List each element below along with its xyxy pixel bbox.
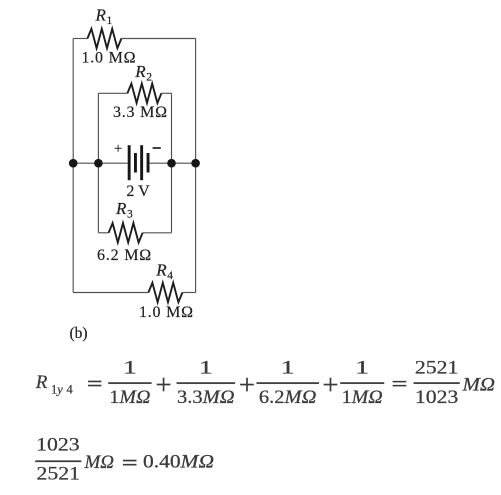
resistor R1	[87, 29, 121, 48]
svg-text:1: 1	[355, 358, 369, 379]
svg-text:3: 3	[127, 209, 133, 221]
svg-text:1.0 MΩ: 1.0 MΩ	[139, 304, 194, 321]
svg-text:R: R	[134, 62, 146, 81]
equation 1: plus sign 1	[157, 384, 170, 385]
equation 1: equals sign 1	[88, 381, 101, 382]
junction node dot 2	[94, 159, 103, 168]
equation 1: plus sign 3	[324, 384, 337, 385]
wire R3 bottom-left segment	[98, 232, 108, 234]
equation 1: fraction 4 bar	[340, 382, 384, 384]
resistor R2	[127, 84, 161, 103]
junction node dot 3	[167, 159, 176, 168]
wire inner-right vertical	[171, 93, 173, 233]
wire top-right segment	[121, 38, 195, 40]
battery V1 short plate 2	[147, 153, 150, 173]
junction node dot 4	[191, 159, 200, 168]
wire inner-left vertical	[97, 93, 99, 233]
junction node dot 1	[69, 159, 78, 168]
battery V1 long plate 1	[128, 145, 131, 180]
equation 1: plus sign 2	[240, 384, 253, 385]
svg-text:4: 4	[167, 270, 173, 282]
svg-text:R: R	[155, 261, 167, 280]
equation 1: equals sign 2	[393, 381, 407, 382]
equation 1: fraction 1 bar	[108, 382, 151, 384]
svg-text:R: R	[35, 372, 48, 393]
svg-text:R: R	[115, 199, 127, 218]
svg-text:+: +	[114, 141, 122, 157]
wire top-left segment	[73, 38, 87, 40]
svg-text:1: 1	[107, 15, 113, 27]
svg-text:1: 1	[123, 358, 137, 379]
equation 1: fraction 5 bar	[414, 382, 460, 384]
wire R3 bottom-right segment	[143, 232, 172, 234]
svg-text:1MΩ: 1MΩ	[342, 387, 383, 408]
wire R2 top-right segment	[161, 92, 171, 94]
svg-text:R: R	[95, 6, 107, 25]
svg-text:6.2 MΩ: 6.2 MΩ	[97, 247, 152, 264]
svg-text:1.0 MΩ: 1.0 MΩ	[81, 49, 136, 66]
svg-text:1023: 1023	[415, 387, 459, 408]
svg-text:1: 1	[199, 358, 213, 379]
svg-text:6.2MΩ: 6.2MΩ	[259, 387, 317, 408]
svg-text:2: 2	[146, 71, 152, 83]
svg-text:1y4: 1y4	[51, 383, 74, 397]
equation 1: fraction 3 bar	[257, 382, 319, 384]
svg-text:MΩ: MΩ	[84, 452, 115, 473]
svg-text:MΩ: MΩ	[461, 374, 495, 395]
svg-text:2 V: 2 V	[126, 183, 150, 200]
wire R2 top-left segment	[98, 92, 127, 94]
equation 2: fraction bar	[35, 461, 81, 463]
svg-text:2521: 2521	[37, 464, 81, 485]
battery V1 long plate 2	[140, 145, 143, 180]
equation 2: equals sign	[123, 460, 136, 461]
svg-text:1: 1	[281, 358, 295, 379]
wire left outer vertical	[72, 39, 74, 293]
svg-text:(b): (b)	[70, 325, 88, 342]
wire R4 bottom-left segment	[73, 292, 148, 294]
svg-text:1MΩ: 1MΩ	[109, 387, 150, 408]
battery V1 short plate 1	[134, 153, 137, 173]
wire middle-left to battery	[73, 162, 128, 164]
svg-text:1023: 1023	[36, 435, 80, 456]
wire battery to middle-right	[150, 162, 196, 164]
svg-text:3.3MΩ: 3.3MΩ	[177, 387, 235, 408]
svg-text:0.40MΩ: 0.40MΩ	[143, 452, 214, 473]
wire right outer vertical	[195, 39, 197, 293]
svg-text:3.3 MΩ: 3.3 MΩ	[113, 104, 168, 121]
wire R4 bottom-right segment	[182, 292, 195, 294]
resistor R3	[109, 223, 143, 242]
equation 1: fraction 2 bar	[177, 382, 235, 384]
svg-text:2521: 2521	[415, 358, 459, 379]
battery minus sign	[153, 147, 161, 149]
resistor R4	[148, 283, 182, 302]
